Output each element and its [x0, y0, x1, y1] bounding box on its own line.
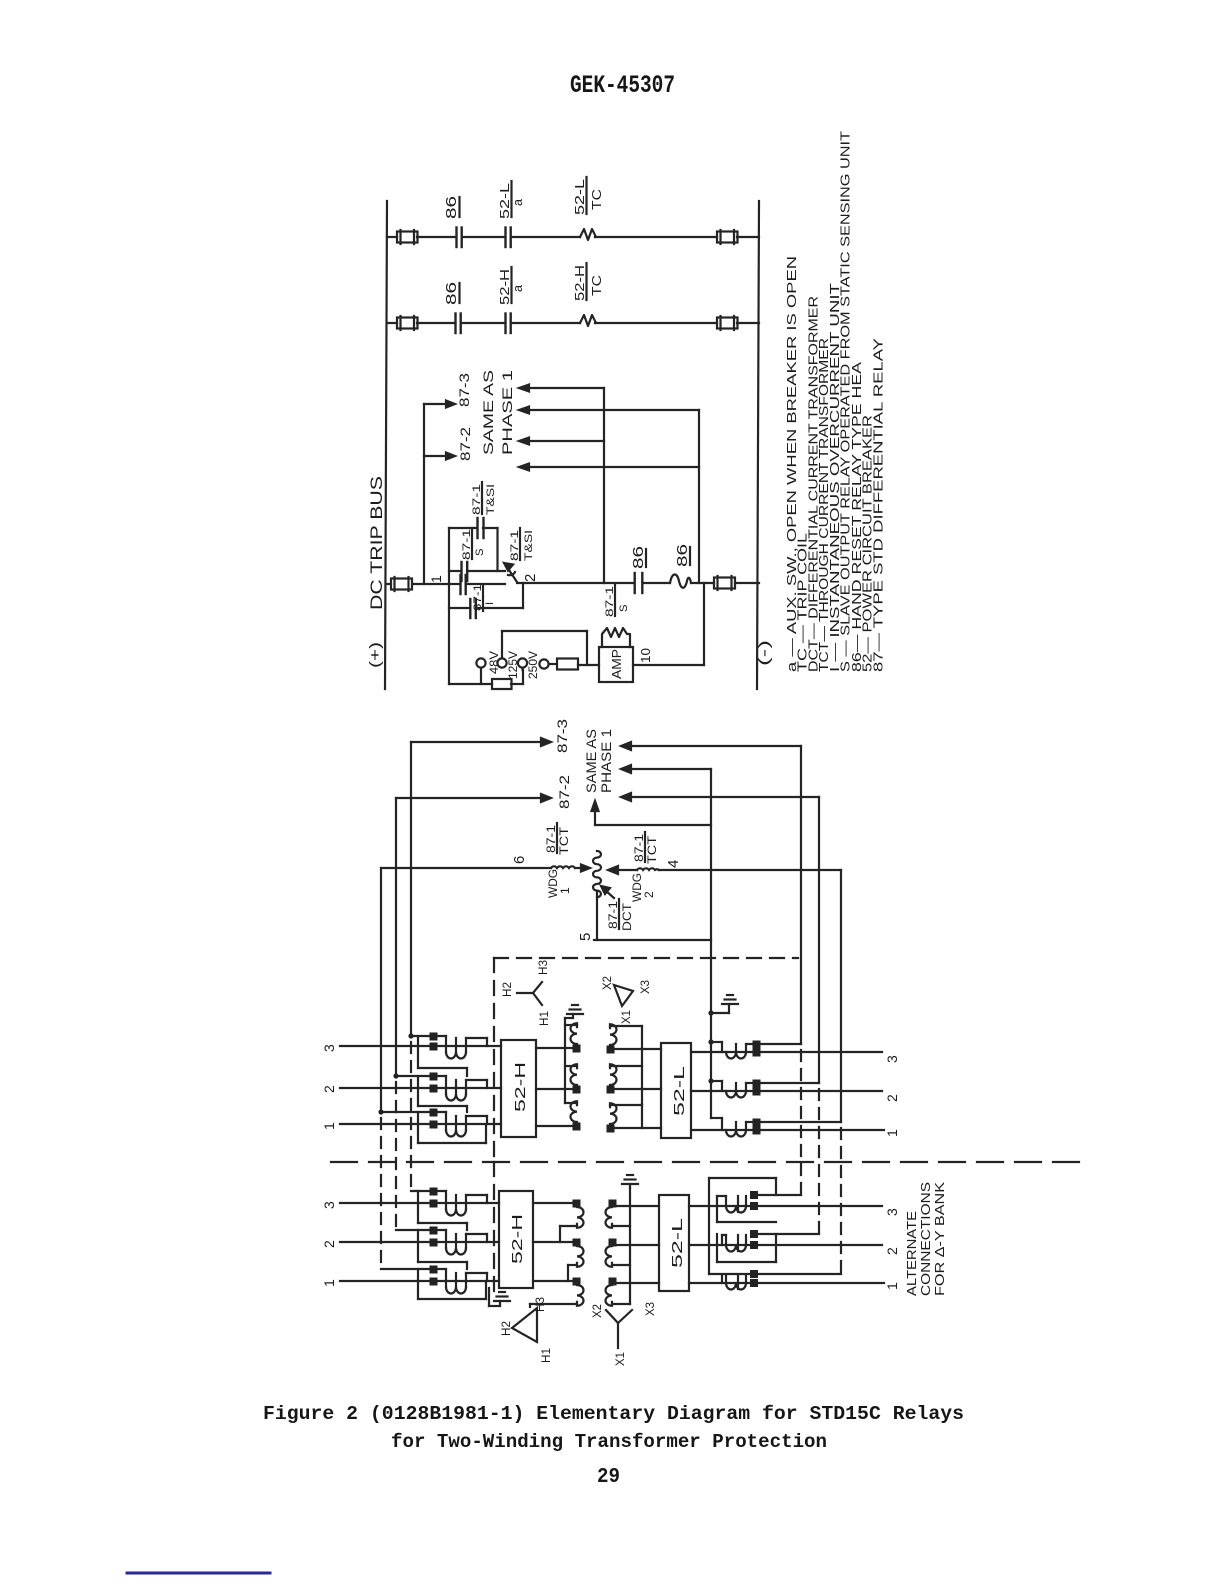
svg-text:H3: H3: [535, 1297, 547, 1312]
svg-text:H3: H3: [538, 960, 550, 975]
svg-text:2: 2: [642, 891, 656, 898]
page number 29: [597, 1466, 620, 1489]
wire X windings to 52-L: [614, 1049, 661, 1128]
legend row TC: [795, 533, 810, 672]
terminal input to dropping resistor: [539, 659, 557, 668]
wire outer vertical VA: [800, 746, 802, 1044]
terminal 250V: [518, 658, 527, 670]
label (+): [367, 642, 384, 668]
wire phase arrow A2: [519, 407, 699, 414]
label WDG 2: [630, 873, 656, 902]
label phase 1 right: [884, 1129, 900, 1137]
svg-text:H2: H2: [501, 1321, 513, 1336]
svg-text:52-H: 52-H: [498, 269, 512, 305]
svg-text:3: 3: [884, 1208, 900, 1216]
legend row 86: [849, 361, 864, 672]
label 87-1/DCT: [608, 899, 634, 931]
label H1: [539, 1011, 551, 1026]
label SAME AS PHASE 1 (lower): [584, 729, 614, 793]
current transformer CT H3: [408, 1033, 487, 1059]
label 87-3 top: [457, 373, 472, 407]
label phase 2 left: [321, 1085, 337, 1093]
relay coil 87-1/S above AMP: [602, 628, 630, 647]
transformer core 87-1/DCT wavy: [593, 851, 601, 897]
delta symbol H1 H2 H3 alt: [512, 1308, 537, 1342]
legend row 52: [860, 415, 875, 672]
svg-text:1: 1: [884, 1129, 900, 1137]
transformer winding H phase2: [565, 1064, 581, 1093]
label H1 alt: [541, 1348, 553, 1363]
svg-text:SAME AS: SAME AS: [584, 729, 599, 793]
fuse rung3 left: [391, 577, 412, 591]
svg-text:3: 3: [321, 1044, 337, 1052]
svg-text:1: 1: [321, 1279, 337, 1287]
bottom-left blue rule: [127, 1572, 270, 1575]
legend row a: [784, 256, 799, 672]
svg-text:87-3: 87-3: [457, 373, 472, 407]
wire terminal 5 to common: [594, 891, 711, 940]
(-) DC trip bus vertical wire: [757, 201, 759, 689]
terminal 125V: [497, 631, 506, 668]
contact on bottom rail: [470, 599, 476, 618]
wire vertical V2: [698, 410, 700, 583]
svg-text:4: 4: [665, 860, 682, 868]
svg-text:1: 1: [428, 575, 444, 583]
wire vertical WDG1 to CT1 jumper: [380, 868, 382, 1112]
label x1: [621, 1010, 633, 1024]
fuse rung2 left: [397, 316, 418, 330]
label 87-1/S: [461, 528, 486, 560]
svg-text:X2: X2: [602, 976, 614, 990]
wire network middle rail: [449, 570, 505, 572]
svg-text:29: 29: [597, 1466, 620, 1489]
current transformer CT L1 alt: [726, 1270, 841, 1290]
svg-text:52-L: 52-L: [498, 183, 512, 219]
wire phase 3 L-side: [691, 1051, 882, 1053]
label 52-H/a: [498, 267, 525, 305]
label phase 3 right (alt): [884, 1208, 900, 1216]
wire H wye neutral bus: [565, 1018, 573, 1103]
label 52-L/a: [498, 181, 525, 219]
svg-text:(+): (+): [367, 642, 384, 668]
label 87-1/TCT left: [546, 823, 571, 855]
svg-text:(-): (-): [756, 640, 773, 666]
svg-text:SAME AS: SAME AS: [481, 370, 496, 455]
wire phase arrow A1: [519, 385, 604, 392]
svg-text:H2: H2: [502, 982, 514, 997]
transformer winding X phase2 alt: [606, 1239, 631, 1267]
label x3: [640, 980, 652, 994]
current transformer CT H3 alt: [411, 1188, 487, 1216]
label phase 3 right: [884, 1055, 900, 1063]
wire common vertical V3: [710, 769, 712, 1118]
svg-text:87— TYPE STD DIFFERENTIAL REL: 87— TYPE STD DIFFERENTIAL RELAY: [870, 337, 885, 672]
wire CT L3 alt loop box: [709, 1178, 776, 1274]
current transformer CT H1: [378, 1109, 487, 1137]
svg-text:FOR Δ-Y BANK: FOR Δ-Y BANK: [932, 1182, 947, 1296]
label x2 alt: [592, 1304, 604, 1318]
svg-text:TCT: TCT: [559, 827, 571, 855]
contact 52-H/a rung2: [506, 314, 511, 334]
current transformer CT L3 alt: [717, 1191, 801, 1213]
svg-text:5: 5: [577, 933, 594, 941]
label x3 alt: [645, 1302, 657, 1316]
svg-text:52-L: 52-L: [573, 179, 587, 215]
label x1 alt: [615, 1352, 627, 1366]
svg-text:a: a: [511, 199, 525, 206]
label 87-1/TCT right: [634, 832, 659, 864]
label 86 rung2: [444, 282, 460, 305]
svg-text:PHASE 1: PHASE 1: [500, 370, 515, 455]
svg-text:87-2: 87-2: [557, 775, 572, 809]
contact 87-1/T&SI top: [478, 518, 484, 538]
legend row TCT: [816, 338, 831, 672]
svg-text:87-3: 87-3: [555, 719, 570, 753]
wire phase 2 alt L-side: [689, 1244, 882, 1246]
wire rung3 right portion: [517, 582, 759, 584]
wire outer vertical VC: [840, 870, 842, 1122]
wire AMP output 10: [633, 583, 704, 665]
label phase 2 right: [884, 1094, 900, 1102]
wire phase arrow A4: [519, 464, 699, 471]
delta symbol X1 X2 X3: [614, 985, 633, 1006]
label phase 1 right (alt): [884, 1282, 900, 1290]
svg-text:3: 3: [884, 1055, 900, 1063]
legend row I: [827, 283, 842, 672]
contact 86 rung1: [457, 228, 462, 248]
svg-text:2: 2: [522, 574, 539, 582]
legend row DCT: [805, 296, 820, 672]
transformer winding H phase1: [565, 1101, 581, 1130]
wire WDG 1 lead: [381, 867, 551, 869]
transformer winding H phase1 alt: [530, 1278, 584, 1308]
wire phase 2 alt H-side: [340, 1241, 499, 1243]
wire CT H3 alt loop: [418, 1191, 467, 1230]
ground X neutral alt: [622, 1175, 638, 1188]
wire 87-3 lead with arrow (lower diagram): [411, 738, 551, 746]
breaker 52-H (upper bank): [501, 1040, 536, 1137]
legend row 87: [870, 337, 885, 672]
resistor R2 dropping: [557, 659, 578, 670]
svg-text:86: 86: [444, 282, 460, 305]
wire dashed continuation 87-2 to alternate: [395, 1082, 397, 1228]
inductor winding 2 of 87-1/TCT: [637, 868, 659, 870]
breaker 52-L (alternate): [659, 1195, 689, 1291]
label phase 3 left (alt): [321, 1201, 337, 1209]
wire 87-2 lead with arrow (lower diagram): [396, 794, 551, 802]
trip coil 52-H/TC squiggle: [580, 315, 596, 326]
contact 86 rung2: [456, 314, 461, 334]
pointer arrow 87-1/DCT: [601, 886, 614, 898]
label DC TRIP BUS: [368, 476, 386, 610]
svg-text:CONNECTIONS: CONNECTIONS: [918, 1182, 933, 1296]
wire vertical 87-2 to CT2 jumper: [395, 798, 397, 1076]
svg-text:2: 2: [884, 1094, 900, 1102]
caption figure text line 2: [391, 1431, 827, 1453]
svg-text:AMP: AMP: [609, 649, 624, 679]
op-amp U1 AMP box: [599, 647, 633, 682]
svg-text:X2: X2: [592, 1304, 604, 1318]
label H2: [502, 982, 514, 997]
contact 87-1/I on rung3: [461, 575, 466, 594]
svg-text:S: S: [474, 549, 486, 556]
label 86 rung1: [444, 196, 460, 219]
wire rung3 main relay rung: [387, 583, 505, 585]
label SAME AS PHASE 1 (top section): [481, 370, 515, 455]
svg-text:2: 2: [321, 1240, 337, 1248]
svg-text:for Two-Winding Transformer Pr: for Two-Winding Transformer Protection: [391, 1431, 827, 1453]
wire vertical 87-3 to CT3 jumper: [410, 742, 412, 1036]
svg-text:2: 2: [321, 1085, 337, 1093]
contact 86 rung3: [635, 573, 643, 593]
svg-text:48V: 48V: [487, 651, 501, 674]
svg-text:DC TRIP BUS: DC TRIP BUS: [368, 476, 386, 610]
wire CT H2 secondary loop: [418, 1076, 467, 1112]
label 250V: [526, 651, 540, 679]
label phase 1 left (alt): [321, 1279, 337, 1287]
label 125V: [506, 651, 520, 679]
wire X alt to 52-L: [616, 1206, 659, 1283]
wire right arrow R2: [621, 765, 711, 773]
wire 87-3 branch arrow: [424, 401, 455, 408]
dashed boundary lower-left: [493, 1162, 495, 1300]
label phase 2 left (alt): [321, 1240, 337, 1248]
coil 86 rung3: [670, 574, 691, 587]
transformer winding X phase1: [607, 1103, 643, 1132]
label x2: [602, 976, 614, 990]
svg-text:87-2: 87-2: [458, 427, 473, 461]
wire CT L1 alt loop box: [721, 1275, 723, 1283]
header GEK-45307: [570, 71, 675, 100]
svg-text:250V: 250V: [526, 651, 540, 679]
wire phase 2 L-side: [691, 1090, 882, 1092]
svg-text:GEK-45307: GEK-45307: [570, 71, 675, 100]
svg-text:H1: H1: [541, 1348, 553, 1363]
svg-text:52-H: 52-H: [509, 1214, 526, 1264]
svg-text:H1: H1: [539, 1011, 551, 1026]
wire dashed continuation 87-3 to alternate: [410, 1042, 412, 1190]
label H3: [538, 960, 550, 975]
svg-text:PHASE 1: PHASE 1: [599, 729, 614, 793]
wire X wye neutral bus alt: [629, 1188, 631, 1304]
label 86 at coil rung3: [675, 544, 691, 567]
label 6: [511, 856, 528, 864]
label 87-1/T&SI top: [471, 482, 497, 515]
label (-): [756, 640, 773, 666]
wire phase arrow A3: [519, 438, 604, 445]
svg-text:X1: X1: [615, 1352, 627, 1366]
svg-text:TC: TC: [590, 189, 604, 210]
wire phase 1 alt H-side: [340, 1280, 499, 1282]
breaker 52-H (alternate): [499, 1191, 533, 1288]
wire CT H2 alt loop: [418, 1230, 467, 1269]
wire phase 3 H-side: [340, 1045, 501, 1047]
svg-text:ALTERNATE: ALTERNATE: [904, 1211, 919, 1296]
label phase 1 left: [321, 1122, 337, 1130]
label 87-1/S coil: [604, 584, 630, 617]
transformer winding X phase3 alt (wye): [606, 1200, 631, 1228]
wire dashed continuation VA to alternate: [800, 1050, 802, 1195]
wire AMP branch bottom rail: [449, 670, 523, 684]
breaker 52-L (upper bank): [661, 1043, 691, 1138]
resistor R1 voltage divider: [492, 679, 512, 689]
svg-text:1: 1: [321, 1122, 337, 1130]
ground H neutral: [567, 1005, 583, 1018]
svg-text:T&SI: T&SI: [523, 530, 535, 561]
label phase 2 right (alt): [884, 1247, 900, 1255]
transformer winding X phase2: [607, 1064, 643, 1093]
svg-text:2: 2: [884, 1247, 900, 1255]
label 2 at switch: [522, 574, 539, 582]
wire rung 52-L trip: [387, 236, 759, 238]
label 87-2 (lower): [557, 775, 572, 809]
current transformer CT H2 alt: [396, 1227, 487, 1255]
svg-text:S: S: [618, 605, 630, 612]
svg-text:52-L: 52-L: [669, 1218, 686, 1268]
terminal 48V: [476, 658, 485, 684]
wye symbol X1 X2 X3 alt: [606, 1310, 632, 1348]
svg-text:a: a: [511, 285, 525, 292]
svg-text:52-H: 52-H: [573, 265, 587, 301]
wire CT H1 secondary loop: [418, 1112, 486, 1143]
contact 52-L/a rung1: [506, 228, 511, 248]
wire phase 1 L-side: [691, 1129, 884, 1131]
inductor winding 1 of 87-1/TCT: [551, 865, 590, 872]
label 10: [638, 648, 653, 663]
fuse rung1 left: [397, 230, 418, 244]
label 86 at contact rung3: [631, 546, 647, 569]
dashed section divider: [331, 1161, 1090, 1163]
label 48V: [487, 651, 501, 674]
svg-text:X1: X1: [621, 1010, 633, 1024]
trip coil 52-L/TC squiggle: [580, 229, 596, 240]
wire CT L2 alt loop box: [717, 1234, 776, 1262]
wire CT H3 secondary loop: [418, 1036, 467, 1076]
wire WDG 2 lead with arrow: [608, 866, 841, 874]
wire 52-H to H windings: [536, 1048, 576, 1126]
svg-text:X3: X3: [645, 1302, 657, 1316]
wire 125V top rail: [502, 631, 587, 665]
svg-text:1: 1: [558, 887, 572, 894]
wire dashed continuation WDG1 to alternate: [380, 1118, 382, 1267]
svg-text:86: 86: [631, 546, 647, 569]
svg-text:3: 3: [321, 1201, 337, 1209]
wire resistor to AMP: [578, 664, 599, 666]
fuse rung3 right: [714, 576, 735, 590]
wire parallel network left vertical: [448, 528, 450, 684]
svg-text:TCT: TCT: [647, 836, 659, 864]
ground at common V3: [708, 995, 738, 1016]
label 87-1/I below rung3: [472, 584, 496, 611]
label 87-3 (lower): [555, 719, 570, 753]
switch contact 2 (87-1/T&SI): [504, 563, 517, 582]
wire outer vertical VB: [818, 797, 820, 1083]
wire CT H1 alt loop: [418, 1269, 486, 1299]
label 87-1/T&SI at switch: [509, 528, 535, 561]
current transformer CT H1 alt: [381, 1266, 487, 1294]
wire up-arrow to phase note: [592, 801, 712, 825]
svg-text:52-L: 52-L: [671, 1066, 688, 1116]
current transformer CT H2: [393, 1073, 487, 1101]
label 4: [665, 860, 682, 868]
wire phase 1 H-side: [340, 1123, 501, 1125]
wire vertical V1: [603, 388, 605, 583]
label 87-2: [458, 427, 473, 461]
transformer winding H phase2 alt: [568, 1239, 584, 1282]
wire ground lead delta neutral: [489, 1288, 500, 1306]
svg-text:T&SI: T&SI: [485, 484, 497, 515]
label WDG 1: [546, 869, 572, 898]
label H3 alt: [535, 1297, 547, 1312]
wire 52-H alt to delta windings: [533, 1203, 572, 1281]
svg-text:1: 1: [884, 1282, 900, 1290]
wire phase 3 alt H-side: [340, 1202, 499, 1204]
svg-text:52-H: 52-H: [512, 1062, 529, 1112]
svg-text:6: 6: [511, 856, 528, 864]
label ALTERNATE CONNECTIONS FOR D-Y BANK: [904, 1182, 947, 1296]
label H2 alt: [501, 1321, 513, 1336]
wye symbol H1 H2 H3: [517, 982, 542, 1005]
label 52-L/TC: [573, 177, 604, 215]
transformer winding H phase3 alt (delta): [560, 1200, 584, 1243]
wire dashed continuation VC to alternate: [840, 1128, 842, 1274]
current transformer CT L3: [708, 1039, 801, 1058]
dashed equipment boundary (upper bank): [494, 958, 798, 1160]
svg-text:TC: TC: [590, 275, 604, 296]
wire network bottom rail: [449, 583, 523, 608]
transformer winding X phase1 alt: [606, 1278, 631, 1306]
svg-text:Figure 2 (0128B1981-1) Eleme: Figure 2 (0128B1981-1) Elementary Diagra…: [263, 1403, 964, 1425]
wire right arrow R3: [621, 793, 819, 801]
caption figure text line 1: [263, 1403, 964, 1425]
svg-text:86: 86: [444, 196, 460, 219]
svg-text:86: 86: [675, 544, 691, 567]
wire phase 2 H-side: [340, 1087, 501, 1089]
wire phase 1 alt L-side: [689, 1282, 884, 1284]
label phase 3 left: [321, 1044, 337, 1052]
current transformer CT L2: [708, 1078, 819, 1097]
svg-text:X3: X3: [640, 980, 652, 994]
wire phase 3 alt L-side: [689, 1205, 882, 1207]
svg-text:10: 10: [638, 648, 653, 663]
ground delta corner: [494, 1292, 510, 1306]
wire dashed continuation VB to alternate: [818, 1089, 820, 1234]
wire branch vertical to 87-2 87-3 arrows: [423, 404, 425, 584]
legend row S: [838, 131, 853, 672]
fuse rung1 right: [717, 230, 738, 244]
(+) DC trip bus vertical wire: [385, 201, 387, 689]
svg-text:DCT: DCT: [622, 903, 634, 931]
wire 87-2 branch arrow: [424, 453, 455, 460]
label 52-H/TC: [573, 263, 604, 301]
wire rung 52-H trip: [387, 322, 759, 324]
wire X delta bus: [641, 1026, 643, 1128]
fuse rung2 right: [717, 316, 738, 330]
transformer winding H phase3 (wye): [565, 1023, 581, 1052]
wire right arrow R1: [621, 742, 801, 750]
current transformer CT L2 alt: [722, 1230, 819, 1252]
wire network top rail: [449, 528, 498, 571]
contact 87-1/S middle: [462, 562, 468, 581]
current transformer CT L1: [711, 1118, 841, 1137]
svg-text:I: I: [484, 602, 496, 605]
node 1 label: [428, 575, 444, 583]
transformer winding X phase3 (delta): [607, 1024, 643, 1053]
label 5: [577, 933, 594, 941]
